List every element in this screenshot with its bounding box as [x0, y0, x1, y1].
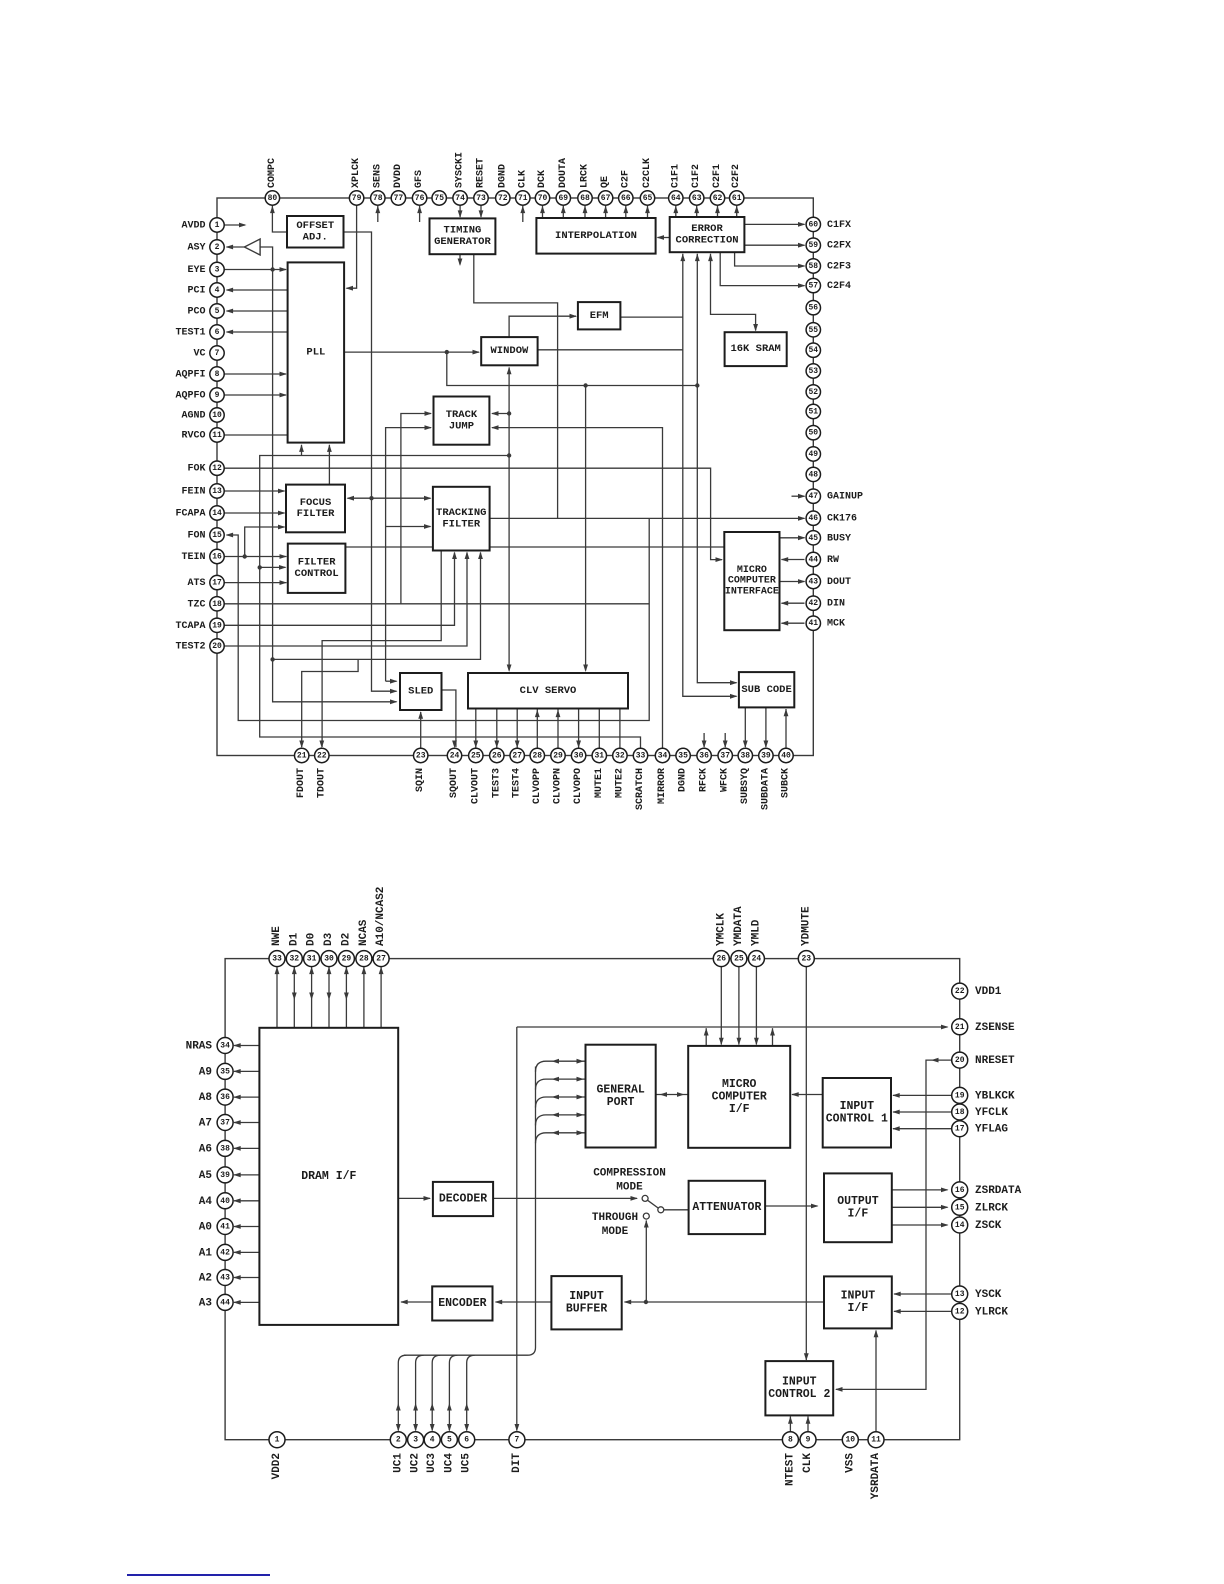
pin 31 D0	[304, 933, 320, 967]
svg-text:INPUT: INPUT	[569, 1290, 604, 1303]
svg-text:61: 61	[732, 194, 742, 203]
pin 19 YBLKCK	[952, 1087, 1015, 1103]
wire ERROR CORRECTION to pin58 C2F3	[735, 252, 806, 268]
svg-text:29: 29	[342, 955, 352, 964]
svg-text:ASY: ASY	[187, 243, 205, 254]
svg-text:EYE: EYE	[187, 265, 205, 276]
pin 11 RVCO	[181, 428, 224, 442]
svg-text:66: 66	[621, 194, 631, 203]
pin 61 C2F2	[730, 164, 744, 205]
pin 10 VSS	[842, 1432, 858, 1473]
svg-text:DGND: DGND	[497, 164, 508, 188]
svg-text:YMLD: YMLD	[750, 919, 762, 946]
wire DIN pin42 to MICRO	[781, 601, 805, 606]
svg-text:ZSRDATA: ZSRDATA	[975, 1185, 1022, 1197]
IC1 outer border	[217, 198, 813, 756]
svg-text:38: 38	[740, 752, 750, 761]
pin 44 A3	[199, 1294, 233, 1310]
wire TRACK JUMP right input 1	[491, 411, 509, 416]
wire INPUT IF to INPUT BUFFER	[624, 1300, 824, 1305]
wire COMPC pin80 from OFFSET ADJ	[270, 204, 287, 232]
svg-text:VC: VC	[193, 349, 205, 360]
svg-text:CLVOPP: CLVOPP	[532, 768, 543, 804]
svg-text:GENERATOR: GENERATOR	[434, 236, 491, 248]
wire CLK pin71 stub	[520, 206, 525, 222]
wire SENS stub	[375, 206, 380, 222]
box INPUT CONTROL 2	[765, 1361, 833, 1415]
svg-text:26: 26	[716, 955, 726, 964]
pin 10 AGND	[181, 408, 224, 422]
pin 7 VC	[193, 346, 224, 360]
buffer amp triangle ASY	[244, 239, 260, 255]
svg-text:ERROR: ERROR	[691, 223, 723, 235]
pin 14 FCAPA	[175, 506, 224, 520]
svg-text:MIRROR: MIRROR	[657, 768, 668, 804]
svg-text:49: 49	[808, 450, 818, 459]
wire ERROR CORRECTION to pin60 C1FX	[744, 222, 805, 227]
pin 46 CK176	[806, 511, 857, 525]
svg-text:LRCK: LRCK	[580, 164, 591, 188]
svg-text:DOUTA: DOUTA	[558, 158, 569, 188]
svg-text:13: 13	[212, 487, 222, 496]
wire ATS pin17 to FILTER CONTROL	[224, 580, 287, 585]
svg-text:79: 79	[352, 194, 362, 203]
svg-text:CONTROL 1: CONTROL 1	[826, 1113, 888, 1126]
wire ERROR CORRECTION to pin57 C2F4	[720, 252, 805, 288]
pin 73 RESET	[474, 158, 488, 205]
wire PLL node down to horizontal distribution	[447, 352, 698, 388]
pin 27 A10/NCAS2	[373, 887, 389, 967]
pin 26 YMCLK	[713, 913, 729, 967]
svg-text:CONTROL: CONTROL	[295, 568, 339, 580]
box SUB CODE	[739, 672, 794, 707]
svg-text:52: 52	[808, 388, 818, 397]
svg-text:YSCK: YSCK	[975, 1289, 1002, 1301]
wire PLL to PCI pin4	[226, 288, 288, 293]
svg-text:JUMP: JUMP	[449, 420, 474, 432]
wire WINDOW to EFM	[509, 314, 577, 337]
svg-text:YBLKCK: YBLKCK	[975, 1090, 1015, 1102]
svg-text:DRAM I/F: DRAM I/F	[301, 1170, 356, 1183]
svg-text:CLK: CLK	[517, 170, 528, 188]
svg-text:16K SRAM: 16K SRAM	[730, 343, 780, 355]
svg-text:24: 24	[450, 752, 460, 761]
pin 50 NC	[806, 426, 820, 440]
svg-text:30: 30	[574, 752, 584, 761]
svg-text:4: 4	[215, 286, 220, 295]
svg-text:38: 38	[220, 1144, 230, 1153]
svg-text:72: 72	[498, 194, 508, 203]
wire TZC corridor to TRACK JUMP left input 1	[401, 411, 432, 604]
svg-text:32: 32	[289, 955, 299, 964]
box 16K SRAM	[725, 332, 787, 366]
svg-text:12: 12	[955, 1307, 965, 1316]
pin 62 C2F1	[710, 164, 724, 205]
wire OFFSET ADJ output corridor to filters and SLED	[344, 232, 398, 694]
svg-text:OUTPUT: OUTPUT	[837, 1195, 879, 1208]
svg-text:DGND: DGND	[678, 768, 689, 792]
svg-text:8: 8	[215, 370, 220, 379]
svg-text:A6: A6	[199, 1143, 212, 1155]
svg-text:SUBSYQ: SUBSYQ	[740, 768, 751, 804]
svg-text:TEST4: TEST4	[512, 768, 523, 798]
svg-text:INPUT: INPUT	[782, 1376, 817, 1389]
pin 16 ZSRDATA	[952, 1182, 1022, 1198]
pin 33 SCRATCH	[633, 748, 647, 810]
svg-text:TEST1: TEST1	[175, 328, 205, 339]
pin 28 NCAS	[356, 919, 372, 966]
svg-text:NWE: NWE	[271, 926, 283, 946]
box OFFSET ADJ	[287, 216, 344, 248]
svg-text:SENS: SENS	[372, 164, 383, 188]
pin 49 NC	[806, 447, 820, 461]
svg-text:CLK: CLK	[802, 1453, 814, 1473]
svg-text:21: 21	[955, 1023, 965, 1032]
svg-text:MODE: MODE	[602, 1226, 629, 1238]
wire ZSENSE line to pin21	[517, 1025, 949, 1030]
svg-text:14: 14	[212, 509, 222, 518]
wire PLL bottom feed left	[299, 444, 304, 455]
svg-text:GENERAL: GENERAL	[596, 1083, 644, 1096]
svg-text:19: 19	[955, 1091, 965, 1100]
wire WINDOW bottom corridor	[507, 367, 512, 458]
wire TEIN branch to FOCUS FILTER	[245, 525, 286, 557]
pin 17 ATS	[187, 575, 224, 589]
svg-text:78: 78	[373, 194, 383, 203]
wire AQPFI pin8 to PLL	[224, 372, 287, 377]
pin 15 FON	[187, 528, 224, 542]
svg-text:44: 44	[220, 1298, 230, 1307]
svg-text:43: 43	[808, 578, 818, 587]
pin 54 NC	[806, 343, 820, 357]
pin 74 SYSCKI	[453, 152, 467, 205]
pin 1 VDD2	[269, 1432, 285, 1480]
pin 25 CLVOUT	[469, 748, 483, 804]
svg-text:8: 8	[788, 1436, 793, 1445]
svg-text:15: 15	[955, 1203, 965, 1212]
svg-text:FILTER: FILTER	[442, 518, 481, 530]
svg-text:A4: A4	[199, 1196, 213, 1208]
svg-text:WFCK: WFCK	[720, 768, 731, 792]
pin 35 DGND	[676, 748, 690, 792]
box DECODER	[433, 1182, 493, 1216]
svg-text:ADJ.: ADJ.	[303, 231, 328, 243]
pin 70 DCK	[535, 170, 549, 205]
svg-text:74: 74	[455, 194, 465, 203]
svg-text:16: 16	[955, 1186, 965, 1195]
svg-text:64: 64	[671, 194, 681, 203]
pin 48 NC	[806, 467, 820, 481]
wire NRESET to INPUT CONTROL 2	[835, 1058, 952, 1392]
svg-text:DVDD: DVDD	[393, 164, 404, 188]
svg-text:55: 55	[808, 326, 818, 335]
svg-text:SUBDATA: SUBDATA	[760, 768, 771, 810]
svg-text:C1FX: C1FX	[827, 220, 851, 231]
pin 2 ASY	[187, 240, 224, 254]
svg-text:39: 39	[761, 752, 771, 761]
svg-text:YFCLK: YFCLK	[975, 1107, 1008, 1119]
pin 22 TDOUT	[315, 748, 329, 798]
svg-text:53: 53	[808, 367, 818, 376]
label THROUGH MODE	[592, 1212, 638, 1238]
svg-text:D2: D2	[340, 933, 352, 946]
svg-text:MICRO: MICRO	[737, 565, 767, 576]
wire EYE branch to ASY buffer	[260, 247, 273, 270]
wire YSRDATA to INPUT IF	[874, 1330, 879, 1432]
box ATTENUATOR	[689, 1181, 766, 1234]
svg-text:63: 63	[692, 194, 702, 203]
wire SLED to SQOUT pin24	[442, 690, 457, 748]
wire GAINUP stub	[792, 494, 806, 499]
svg-text:SLED: SLED	[408, 686, 433, 698]
svg-text:34: 34	[658, 752, 668, 761]
svg-text:25: 25	[734, 955, 744, 964]
svg-text:ATS: ATS	[187, 578, 205, 589]
box FOCUS FILTER	[286, 485, 345, 533]
svg-text:UC1: UC1	[392, 1453, 404, 1473]
pin 37 WFCK	[718, 748, 732, 792]
svg-text:NRAS: NRAS	[186, 1041, 213, 1053]
svg-text:PLL: PLL	[306, 347, 325, 359]
wire MICRO IF stub to ZSENSE line left	[704, 1028, 709, 1046]
svg-text:36: 36	[220, 1093, 230, 1102]
svg-text:C2F3: C2F3	[827, 262, 851, 273]
svg-text:YSRDATA: YSRDATA	[870, 1453, 882, 1500]
wire FON pin15 long loop	[226, 518, 650, 720]
wires YBLKCK YFCLK YFLAG to INPUT CONTROL 1	[892, 1093, 951, 1131]
box MICRO COMPUTER I/F	[688, 1046, 790, 1148]
svg-text:QE: QE	[600, 176, 611, 188]
pin 35 A9	[199, 1063, 233, 1079]
pin 39 A5	[199, 1167, 233, 1183]
box INPUT BUFFER	[551, 1276, 621, 1329]
pin 34 NRAS	[186, 1038, 234, 1054]
pin 65 C2CLK	[640, 158, 654, 205]
svg-text:20: 20	[955, 1056, 965, 1065]
svg-text:7: 7	[215, 349, 220, 358]
box MICRO COMPUTER INTERFACE	[724, 532, 779, 630]
svg-text:A5: A5	[199, 1170, 213, 1182]
svg-text:SQIN: SQIN	[415, 768, 426, 792]
svg-text:76: 76	[415, 194, 425, 203]
svg-text:80: 80	[268, 194, 278, 203]
svg-text:AQPFO: AQPFO	[175, 391, 205, 402]
wire branch to TRACKING FILTER left	[372, 496, 432, 501]
svg-text:I/F: I/F	[729, 1103, 750, 1116]
svg-text:PCO: PCO	[187, 307, 205, 318]
svg-text:PCI: PCI	[187, 286, 205, 297]
svg-text:C2F2: C2F2	[731, 164, 742, 188]
wire PLL to TEST1 pin6	[226, 330, 288, 335]
pin 30 D3	[321, 932, 337, 966]
pin 69 DOUTA	[556, 158, 570, 205]
pin 44 RW	[806, 552, 839, 566]
wire INPUT BUFFER to ENCODER	[495, 1300, 552, 1305]
wire WINDOW right output	[538, 349, 683, 351]
svg-text:NTEST: NTEST	[784, 1453, 796, 1486]
wire ERROR CORRECTION to 16K SRAM	[708, 254, 758, 332]
svg-text:5: 5	[447, 1436, 452, 1445]
svg-text:41: 41	[220, 1223, 230, 1232]
pin 20 NRESET	[952, 1052, 1015, 1068]
wire AVDD stub	[224, 223, 246, 228]
svg-text:19: 19	[212, 621, 222, 630]
svg-text:25: 25	[471, 752, 481, 761]
pin 3 UC2	[408, 1432, 424, 1473]
pin 15 ZLRCK	[952, 1199, 1009, 1215]
pin 45 BUSY	[806, 531, 851, 545]
svg-text:71: 71	[518, 194, 528, 203]
svg-text:ZSENSE: ZSENSE	[975, 1022, 1015, 1034]
wire GFS stub	[417, 206, 422, 222]
svg-text:6: 6	[215, 328, 220, 337]
svg-text:ZSCK: ZSCK	[975, 1220, 1002, 1232]
svg-text:6: 6	[464, 1436, 469, 1445]
svg-text:VDD1: VDD1	[975, 986, 1002, 998]
pin 40 A4	[199, 1193, 233, 1209]
pin 42 DIN	[806, 596, 845, 610]
svg-text:BUFFER: BUFFER	[566, 1303, 608, 1316]
svg-text:ATTENUATOR: ATTENUATOR	[692, 1201, 761, 1214]
pin 24 YMLD	[748, 919, 764, 966]
pin 25 YMDATA	[731, 906, 747, 967]
pin 29 D2	[338, 933, 354, 967]
svg-text:VDD2: VDD2	[271, 1453, 283, 1479]
pin 8 AQPFI	[175, 367, 224, 381]
wire WFCK stub	[723, 733, 728, 748]
svg-text:29: 29	[553, 752, 563, 761]
svg-text:TRACKING: TRACKING	[436, 507, 486, 519]
wires DRAM address pins 34-44	[233, 1043, 259, 1305]
box INPUT I/F	[824, 1276, 892, 1328]
pin 41 MCK	[806, 616, 845, 630]
svg-text:ENCODER: ENCODER	[438, 1297, 486, 1310]
wire RESET to TIMING GENERATOR	[479, 205, 484, 218]
wire SUBCK pin40 to SUB CODE	[784, 709, 789, 748]
pin 71 CLK	[516, 170, 530, 205]
svg-text:A3: A3	[199, 1297, 213, 1309]
svg-text:32: 32	[615, 752, 625, 761]
wires OUTPUT IF to pins 16 15 14	[892, 1188, 949, 1228]
svg-text:16: 16	[212, 553, 222, 562]
box INPUT CONTROL 1	[823, 1078, 891, 1148]
pin 75 NC	[432, 191, 446, 205]
svg-text:MICRO: MICRO	[722, 1078, 757, 1091]
svg-text:C2F1: C2F1	[712, 164, 723, 188]
svg-text:20: 20	[212, 642, 222, 651]
svg-text:MODE: MODE	[616, 1182, 643, 1194]
svg-text:I/F: I/F	[848, 1302, 869, 1315]
wire SYSCKI to TIMING GENERATOR	[458, 205, 463, 218]
svg-text:RVCO: RVCO	[181, 431, 205, 442]
wires YSCK YLRCK to INPUT IF	[893, 1292, 951, 1314]
wires DRAM data pins 33-27	[275, 967, 384, 1028]
svg-text:51: 51	[808, 408, 818, 417]
svg-text:PORT: PORT	[607, 1096, 635, 1109]
svg-text:INPUT: INPUT	[841, 1290, 876, 1303]
wire TIMING GENERATOR to CK176 corridor	[474, 254, 558, 518]
pin 57 C2F4	[806, 278, 851, 292]
svg-text:D1: D1	[288, 932, 300, 946]
wire branch to FILTER CONTROL from corridor	[260, 565, 287, 570]
svg-text:2: 2	[396, 1436, 401, 1445]
pin 51 NC	[806, 404, 820, 418]
pin 12 FOK	[187, 461, 224, 475]
svg-text:RW: RW	[827, 555, 839, 566]
svg-text:TEIN: TEIN	[181, 552, 205, 563]
pin 43 DOUT	[806, 574, 851, 588]
svg-text:YFLAG: YFLAG	[975, 1124, 1008, 1136]
wire MCK pin41 to MICRO	[781, 621, 805, 626]
wire SCRATCH loop to PLL distribution node	[258, 456, 641, 749]
wire EYE branch to TRACKING FILTER bottom input 4	[273, 552, 483, 660]
svg-text:TZC: TZC	[187, 599, 205, 610]
wire ERROR CORRECTION to pin59 C2FX	[744, 243, 805, 248]
wire FCAPA pin14 to FOCUS FILTER	[224, 511, 285, 516]
svg-text:D3: D3	[323, 932, 335, 946]
svg-text:57: 57	[808, 282, 818, 291]
wire DRAM to DECODER	[398, 1196, 431, 1201]
svg-text:YDMUTE: YDMUTE	[800, 906, 812, 946]
wire FOK pin12 to MICRO COMPUTER INTERFACE	[224, 468, 723, 562]
svg-text:39: 39	[220, 1171, 230, 1180]
svg-text:2: 2	[215, 243, 220, 252]
pin 78 SENS	[371, 164, 385, 205]
svg-text:28: 28	[532, 752, 542, 761]
svg-text:37: 37	[220, 1119, 230, 1128]
svg-text:21: 21	[297, 752, 307, 761]
svg-text:A0: A0	[199, 1222, 212, 1234]
pin 9 AQPFO	[175, 388, 224, 402]
svg-text:CORRECTION: CORRECTION	[676, 234, 739, 246]
UC port bundle riser	[404, 1067, 536, 1356]
svg-text:7: 7	[514, 1436, 519, 1445]
svg-text:SCRATCH: SCRATCH	[635, 768, 646, 810]
svg-text:1: 1	[275, 1436, 280, 1445]
svg-text:54: 54	[808, 346, 818, 355]
pin 34 MIRROR	[655, 748, 669, 804]
svg-text:43: 43	[220, 1274, 230, 1283]
pin 27 TEST4	[510, 748, 524, 798]
svg-text:60: 60	[808, 220, 818, 229]
svg-text:65: 65	[643, 194, 653, 203]
pin 20 TEST2	[175, 639, 224, 653]
wire MIRROR to TRACK JUMP right input 2	[491, 425, 663, 748]
svg-text:FON: FON	[187, 531, 205, 542]
pin 55 NC	[806, 323, 820, 337]
svg-text:CONTROL 2: CONTROL 2	[768, 1388, 830, 1401]
wire MICRO to DOUT pin43	[780, 579, 806, 584]
svg-text:70: 70	[538, 194, 548, 203]
pin 12 YLRCK	[952, 1303, 1009, 1319]
svg-text:SQOUT: SQOUT	[449, 768, 460, 798]
svg-text:47: 47	[808, 492, 818, 501]
pin 5 UC4	[441, 1432, 457, 1473]
wire FDOUT pin21 from EYE branch jog	[299, 659, 358, 748]
box WINDOW	[481, 337, 537, 365]
pin 60 C1FX	[806, 217, 851, 231]
svg-text:DOUT: DOUT	[827, 577, 851, 588]
pin 24 SQOUT	[447, 748, 461, 798]
pin 1 AVDD	[181, 218, 224, 232]
svg-text:44: 44	[808, 556, 818, 565]
svg-text:YMCLK: YMCLK	[715, 913, 727, 946]
svg-text:CLVOPO: CLVOPO	[573, 768, 584, 804]
svg-text:A10/NCAS2: A10/NCAS2	[375, 887, 387, 946]
svg-text:69: 69	[558, 194, 568, 203]
svg-text:36: 36	[699, 752, 709, 761]
pin 23 YDMUTE	[798, 906, 814, 967]
